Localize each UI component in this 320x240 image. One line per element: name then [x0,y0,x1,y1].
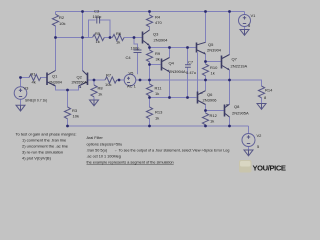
svg-text:R13: R13 [155,110,163,115]
wire R11 to node [149,96,151,98]
svg-text:1) comment the .tran line: 1) comment the .tran line [22,138,67,143]
wire RC loop [89,20,111,38]
node input [19,76,22,79]
node Q5e-R10 [204,60,207,63]
svg-text:100p: 100p [131,46,141,51]
svg-text:V3: V3 [24,85,30,90]
wire R9 bottom [149,62,151,65]
node y48-C7 [186,46,189,49]
svg-text:R2: R2 [59,15,65,20]
node Q3 emitter [148,46,151,49]
svg-text:R6: R6 [116,31,122,36]
wire base link Q5-Q6 [197,53,199,92]
svg-text:2N2905A: 2N2905A [232,111,249,116]
svg-text:Arai Filter: Arai Filter [87,136,104,140]
transistor Q7 [222,55,230,71]
source V1 [239,15,251,27]
node C4 top [133,36,136,39]
source V3 [14,87,27,100]
wire V2 bottom [248,147,250,151]
svg-text:R3: R3 [72,108,78,113]
svg-text:C4: C4 [126,55,132,60]
node Q2col-mid [81,36,84,39]
svg-text:Q7: Q7 [232,57,238,62]
svg-text:Q2: Q2 [77,74,83,79]
resistor R3 [64,107,70,119]
node bottom rail Q8 [228,125,231,128]
svg-text:V5: V5 [129,71,135,76]
svg-text:C3: C3 [94,9,100,14]
svg-text:V1: V1 [251,13,257,18]
svg-text:SINE(0 0.7 1k): SINE(0 0.7 1k) [25,98,47,102]
wire R1 to Q1 base [40,77,46,79]
resistor R11 [146,84,152,96]
node bottom rail R3 [66,125,69,128]
svg-text:0.47u: 0.47u [186,70,196,75]
node out rail Q7e [228,79,231,82]
source V2 [242,134,255,147]
wire R10 bottom [205,76,207,80]
wire Q8 emitter [229,80,231,104]
resistor R10 [202,64,208,76]
svg-text:R8: R8 [98,86,104,91]
resistor R9 [146,50,152,62]
transistor Q3 [143,30,150,46]
wire y80 output rail [136,79,262,81]
transistor Q2 [78,71,87,89]
wire R2 bottom lead [55,26,57,38]
svg-text:1k: 1k [155,91,159,96]
ground under V3 [16,105,25,111]
wire R7 to V5 [117,79,124,81]
svg-text:4k: 4k [32,80,36,85]
wire mid column to R11 [149,65,151,85]
wire tail [67,90,69,107]
resistor R12 [202,113,208,125]
svg-text:V2: V2 [257,133,263,138]
resistor R7 [105,77,117,83]
wire R8 bottom [93,97,95,100]
wire Q4 base [150,64,161,66]
wire emitters joining [56,86,79,90]
resistor R8 [91,85,97,97]
svg-text:R12: R12 [210,113,218,118]
node y48-Q4c [168,46,171,49]
wire V1 top [244,12,246,15]
svg-text:Q4: Q4 [169,61,175,66]
wire V3 leads [20,78,22,106]
wire Q6 collector [205,80,207,91]
svg-text:1k: 1k [116,40,120,45]
node rail-Q2col [81,10,84,13]
svg-text:2N3906: 2N3906 [203,98,218,103]
wire Q7 collector [229,12,231,55]
wire Q3 emitter [149,46,151,51]
source V5 [124,74,136,86]
node Q6e-R12 [204,109,207,112]
svg-text:10k: 10k [105,82,111,87]
node tail [66,89,69,92]
wire R12 bottom [205,125,207,126]
svg-text:3k: 3k [156,57,160,62]
resistor R2 [52,14,58,26]
wire Q7 emitter [229,70,231,80]
svg-text:options stepsize=50u: options stepsize=50u [87,143,123,147]
resistor R14 [258,86,264,98]
svg-text:3) re-run the simulation: 3) re-run the simulation [22,150,63,155]
svg-text:2N2219A: 2N2219A [231,64,248,69]
svg-text:To test ol gain and phase marg: To test ol gain and phase margins: [16,132,77,137]
svg-text:4) plot V(b)/V(B): 4) plot V(b)/V(B) [22,156,52,161]
wire C7 leads [187,48,189,98]
node R11 bottom [148,96,151,99]
resistor R5 [93,34,105,40]
node V5 right [139,79,142,82]
ground under R8 [90,100,99,106]
watermark icon [239,160,252,173]
wire Q8 collector [229,117,231,126]
node bottom rail R12 [204,125,207,128]
node R10 bottom rail [204,79,207,82]
spice directive text block [87,136,123,159]
node y98-C7 [186,96,189,99]
svg-text:1k: 1k [98,92,102,97]
wire R3 bottom [67,119,69,126]
wire Q1 collector [55,38,57,71]
transistor Q5 [197,42,206,54]
node bottom rail R13 [148,125,151,128]
svg-text:YOU/PICE: YOU/PICE [253,164,286,173]
node y98-Q4e [168,96,171,99]
svg-text:1k: 1k [155,116,159,121]
wire mid rail 2 [104,37,112,39]
resistor R13 [146,107,152,119]
wire Q8 base [206,110,225,112]
resistor R4 [146,15,152,27]
node R2 bottom [54,36,57,39]
svg-text:R5: R5 [95,31,101,36]
svg-text:10k: 10k [59,21,65,26]
svg-text:Q6: Q6 [207,92,213,97]
wire R14 bottom [261,98,263,104]
svg-text:Q5: Q5 [208,42,214,47]
wire output to R14 [230,80,262,86]
ground under V2 [244,150,253,156]
wire Q5 collector [205,12,207,43]
wire R8 top lead [93,80,95,85]
svg-text:1k: 1k [96,39,100,44]
wire Q4 collector [169,48,171,58]
svg-text:1k: 1k [210,119,214,124]
node rail-Q7col [228,10,231,13]
wire mid rail 3 [124,37,142,39]
wire Q6 emitter to node [205,105,207,114]
svg-text:R9: R9 [155,51,161,56]
wire y48 rail [150,47,197,49]
node R9 bottom [148,63,151,66]
ground under R14 [257,104,266,110]
svg-text:2N3904: 2N3904 [207,48,222,53]
svg-text:Q1: Q1 [52,74,58,79]
svg-text:C7: C7 [188,60,194,65]
wire Q7 base [206,61,222,63]
transistor Q4 [162,58,170,72]
wire mid rail [56,37,93,39]
svg-text:.ac oct 10 1 100Meg: .ac oct 10 1 100Meg [87,155,121,159]
wire C4 lead [134,38,138,75]
wire V2 top [248,126,250,134]
svg-text:100p: 100p [93,14,103,19]
ground under V1 [240,30,249,36]
svg-text:R14: R14 [265,88,273,93]
svg-text:R4: R4 [155,15,161,20]
transistor Q1 [47,71,56,87]
wire input node to R1 [21,77,30,79]
svg-text:.tran 50 5(u): .tran 50 5(u) [87,149,108,153]
svg-text:2N5550A: 2N5550A [72,81,88,85]
svg-text:2N3904: 2N3904 [49,81,62,85]
wire R2 top lead [55,12,57,15]
capacitor C4 [134,50,142,53]
svg-text:1k: 1k [211,71,215,76]
red comment text block [16,132,77,161]
wire Q5 emitter to node [205,54,207,64]
node V5 left [118,79,121,82]
wire Q3 collector column with R4 [149,12,151,31]
node rail-Q3col [148,10,151,13]
node R11 top [148,79,151,82]
svg-text:10k: 10k [73,114,79,119]
transistor Q6 [198,91,206,105]
transistor Q8 [225,104,230,117]
wire R13 leads [149,98,151,127]
svg-text:470: 470 [155,20,162,25]
svg-text:2) uncomment the .ac line: 2) uncomment the .ac line [22,144,69,149]
capacitor C3 [97,17,100,24]
svg-text:the example represents a segme: the example represents a segment of the … [87,161,174,165]
svg-text:R1: R1 [31,72,37,77]
svg-text:R10: R10 [210,65,218,70]
wire V1 bottom [244,27,246,30]
wire bottom rail [68,125,249,127]
svg-text:2N3904: 2N3904 [154,38,169,43]
capacitor C7 [185,65,191,67]
resistor R6 [112,34,124,40]
svg-text:2N3904A: 2N3904A [169,69,186,74]
svg-text:AC 1: AC 1 [127,84,137,89]
wire y98 rail [150,97,197,99]
wire Q2 collector column [82,12,84,71]
wire Q2 base to R7 [88,79,106,81]
svg-text:Q8: Q8 [234,104,240,109]
node rail-Q5col [204,10,207,13]
node RC right [109,36,112,39]
svg-text:Q3: Q3 [153,32,159,37]
wire top rail [56,11,245,13]
wire Q4 emitter [169,72,171,98]
svg-text:R7: R7 [106,73,112,78]
svg-text:← To see the output of a .fou: ← To see the output of a .four statement… [114,149,229,153]
resistor R1 [29,74,41,80]
svg-text:R11: R11 [155,86,163,91]
node R8 top [93,79,96,82]
